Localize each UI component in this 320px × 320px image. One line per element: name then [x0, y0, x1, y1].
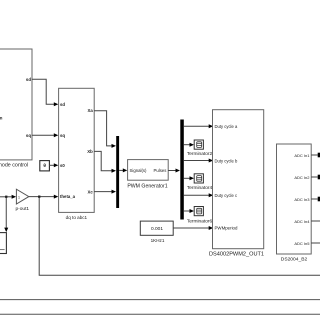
svg-text:sq: sq [60, 133, 65, 138]
svg-text:ADC In5: ADC In5 [294, 241, 310, 246]
svg-text:ADC In4: ADC In4 [294, 219, 310, 224]
svg-text:ADC In3: ADC In3 [294, 197, 310, 202]
svg-text:PWMperiod: PWMperiod [215, 225, 238, 230]
svg-text:mode control: mode control [0, 162, 28, 168]
svg-text:ADC In2: ADC In2 [294, 175, 310, 180]
svg-text:sd: sd [60, 102, 65, 107]
svg-text:theta_a: theta_a [60, 194, 76, 199]
svg-text:ADC In1: ADC In1 [294, 153, 310, 158]
svg-text:dq to abc1: dq to abc1 [66, 215, 88, 220]
svg-text:s0: s0 [60, 163, 65, 168]
svg-text:Pulses: Pulses [153, 168, 166, 173]
svg-text:Duty cycle c: Duty cycle c [215, 193, 238, 198]
svg-text:Duty cycle a: Duty cycle a [215, 124, 238, 129]
svg-text:Duty cycle b: Duty cycle b [215, 158, 238, 163]
svg-text:Terminator4: Terminator4 [187, 185, 213, 191]
svg-text:p-out1: p-out1 [15, 206, 29, 212]
svg-text:sd: sd [26, 77, 31, 82]
svg-text:PWM Generator1: PWM Generator1 [127, 184, 167, 190]
svg-text:sq: sq [26, 133, 31, 138]
svg-text:Xb: Xb [87, 149, 93, 154]
svg-text:1KHz1: 1KHz1 [151, 238, 165, 243]
svg-text:DS4002PWM2_OUT1: DS4002PWM2_OUT1 [209, 252, 264, 258]
svg-text:Terminator6: Terminator6 [187, 218, 213, 224]
svg-text:m: m [0, 116, 3, 121]
svg-text:Xc: Xc [88, 189, 94, 194]
svg-text:DS2004_B2: DS2004_B2 [281, 257, 308, 263]
svg-text:Terminator2: Terminator2 [187, 151, 213, 157]
svg-text:1: 1 [18, 195, 20, 199]
svg-text:Signal(s): Signal(s) [130, 168, 148, 173]
svg-text:0.001: 0.001 [151, 226, 163, 232]
svg-text:Xa: Xa [88, 108, 94, 113]
